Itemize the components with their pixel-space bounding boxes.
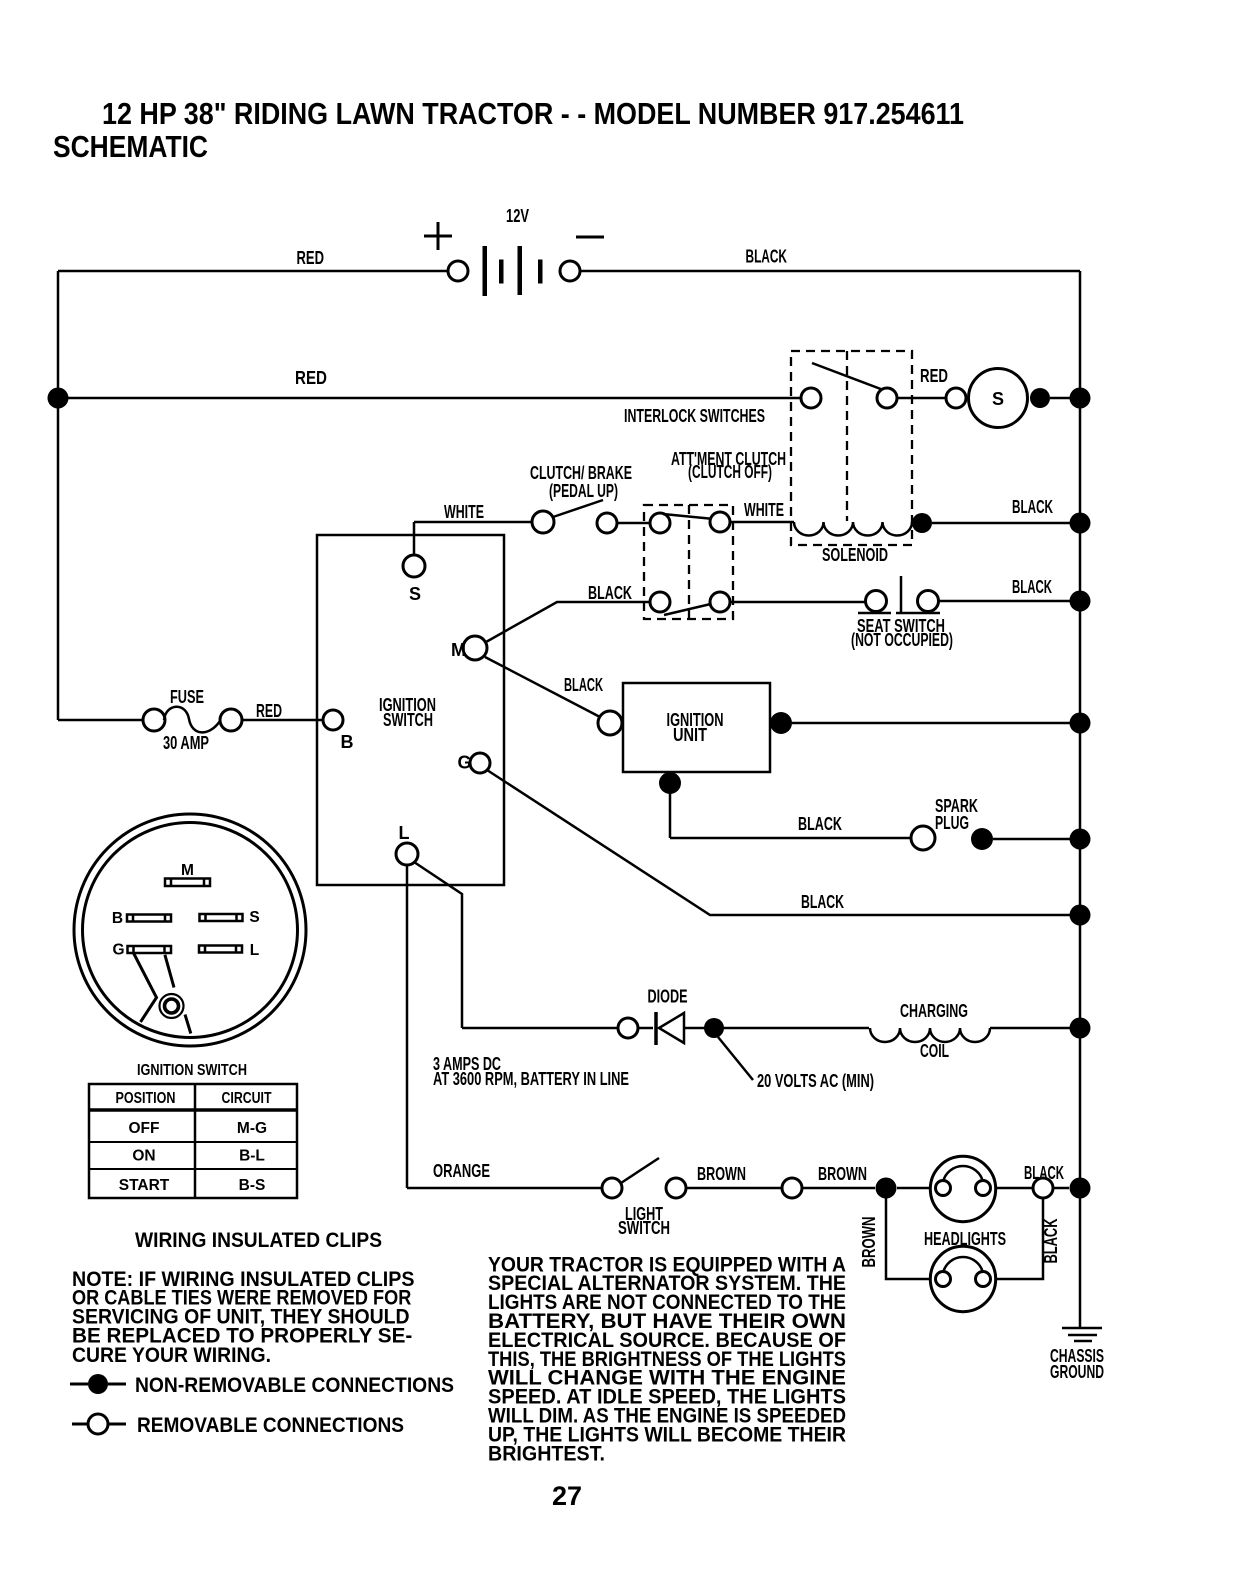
svg-text:START: START xyxy=(119,1177,170,1194)
svg-text:BLACK: BLACK xyxy=(564,675,603,695)
svg-text:(CLUTCH OFF): (CLUTCH OFF) xyxy=(688,462,772,482)
svg-text:FUSE: FUSE xyxy=(170,687,204,707)
svg-text:M: M xyxy=(181,862,194,879)
svg-text:B: B xyxy=(112,910,123,927)
svg-text:RED: RED xyxy=(920,366,948,386)
svg-text:G: G xyxy=(457,753,471,773)
svg-text:30 AMP: 30 AMP xyxy=(163,733,209,753)
svg-text:DIODE: DIODE xyxy=(648,987,688,1007)
svg-text:B: B xyxy=(341,732,354,752)
svg-text:AT 3600 RPM, BATTERY IN LINE: AT 3600 RPM, BATTERY IN LINE xyxy=(433,1069,629,1089)
svg-text:BLACK: BLACK xyxy=(1012,497,1053,517)
svg-text:RED: RED xyxy=(297,248,325,268)
svg-text:12V: 12V xyxy=(506,206,529,226)
svg-text:BLACK: BLACK xyxy=(798,814,842,834)
svg-text:CLUTCH/ BRAKE: CLUTCH/ BRAKE xyxy=(530,463,632,483)
svg-text:BROWN: BROWN xyxy=(697,1164,746,1184)
svg-text:POSITION: POSITION xyxy=(116,1090,176,1107)
svg-text:SOLENOID: SOLENOID xyxy=(822,545,888,565)
svg-text:L: L xyxy=(399,823,410,843)
svg-text:M-G: M-G xyxy=(237,1120,267,1137)
svg-text:HEADLIGHTS: HEADLIGHTS xyxy=(924,1229,1006,1249)
svg-text:SCHEMATIC: SCHEMATIC xyxy=(53,129,208,164)
svg-text:CIRCUIT: CIRCUIT xyxy=(222,1090,272,1107)
svg-text:27: 27 xyxy=(552,1481,582,1511)
svg-text:BRIGHTEST.: BRIGHTEST. xyxy=(488,1441,605,1465)
svg-text:SWITCH: SWITCH xyxy=(383,710,433,730)
svg-text:M: M xyxy=(451,640,466,660)
svg-text:20 VOLTS AC (MIN): 20 VOLTS AC (MIN) xyxy=(757,1071,874,1091)
svg-text:WIRING INSULATED CLIPS: WIRING INSULATED CLIPS xyxy=(135,1228,382,1252)
svg-text:WHITE: WHITE xyxy=(444,502,484,522)
svg-text:B-L: B-L xyxy=(239,1148,265,1165)
svg-text:S: S xyxy=(992,389,1004,409)
svg-text:NON-REMOVABLE CONNECTIONS: NON-REMOVABLE CONNECTIONS xyxy=(135,1373,454,1397)
svg-text:S: S xyxy=(409,584,421,604)
svg-text:BLACK: BLACK xyxy=(1041,1219,1061,1264)
svg-text:G: G xyxy=(112,942,124,959)
svg-text:S: S xyxy=(249,909,259,926)
svg-text:COIL: COIL xyxy=(920,1041,949,1061)
svg-text:(NOT OCCUPIED): (NOT OCCUPIED) xyxy=(851,630,953,650)
svg-text:CURE YOUR WIRING.: CURE YOUR WIRING. xyxy=(72,1343,271,1367)
svg-text:BROWN: BROWN xyxy=(859,1217,879,1268)
svg-text:B-S: B-S xyxy=(239,1177,266,1194)
svg-text:ON: ON xyxy=(132,1148,155,1165)
svg-text:BLACK: BLACK xyxy=(746,247,788,267)
svg-text:ORANGE: ORANGE xyxy=(433,1161,490,1181)
svg-text:BLACK: BLACK xyxy=(1024,1163,1064,1183)
svg-text:INTERLOCK SWITCHES: INTERLOCK SWITCHES xyxy=(624,406,765,426)
svg-text:BROWN: BROWN xyxy=(818,1164,867,1184)
svg-text:(PEDAL UP): (PEDAL UP) xyxy=(549,481,618,501)
svg-text:RED: RED xyxy=(256,701,282,721)
svg-text:BLACK: BLACK xyxy=(588,583,632,603)
svg-text:CHARGING: CHARGING xyxy=(900,1001,968,1021)
svg-text:L: L xyxy=(250,942,259,959)
svg-text:BLACK: BLACK xyxy=(1012,577,1052,597)
svg-text:PLUG: PLUG xyxy=(935,813,969,833)
svg-text:12 HP 38" RIDING LAWN TRACTOR: 12 HP 38" RIDING LAWN TRACTOR - - MODEL … xyxy=(102,96,964,131)
svg-text:SWITCH: SWITCH xyxy=(618,1218,670,1238)
svg-text:REMOVABLE CONNECTIONS: REMOVABLE CONNECTIONS xyxy=(137,1413,404,1437)
svg-text:WHITE: WHITE xyxy=(744,500,784,520)
svg-text:GROUND: GROUND xyxy=(1050,1362,1104,1382)
svg-text:OFF: OFF xyxy=(129,1120,160,1137)
svg-text:BLACK: BLACK xyxy=(801,892,844,912)
svg-text:IGNITION SWITCH: IGNITION SWITCH xyxy=(137,1062,247,1079)
svg-text:RED: RED xyxy=(295,368,327,388)
svg-text:UNIT: UNIT xyxy=(673,725,707,745)
